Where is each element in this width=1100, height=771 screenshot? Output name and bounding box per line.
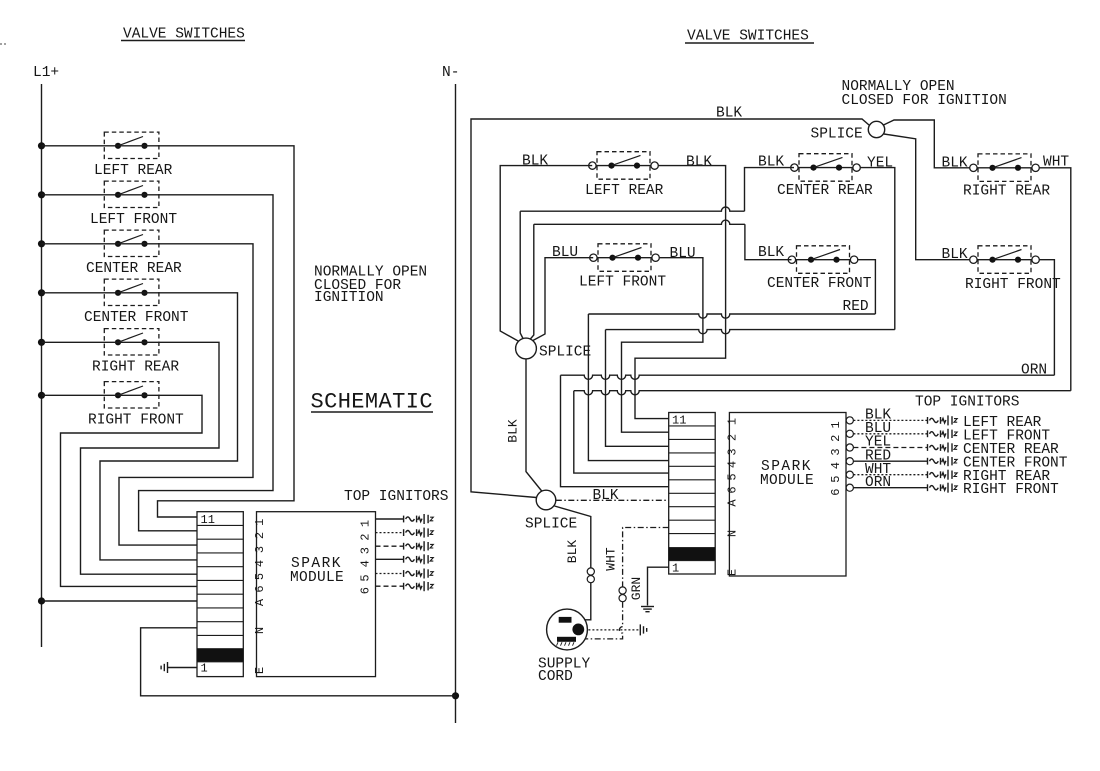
- junction dot L1 row 6: [38, 392, 45, 399]
- valve switch RIGHT FRONT (schematic): [104, 382, 159, 408]
- svg-text:4: 4: [829, 462, 843, 469]
- wire ORN RIGHT FRONT to P2 pin 6: [561, 260, 1055, 487]
- wire LEFT FRONT to connector: [42, 195, 274, 531]
- wire GRN P2 pin 1 to ground: [648, 567, 669, 605]
- wire BLK U2 pin 1 to ignitor: [853, 419, 927, 421]
- svg-text:3: 3: [726, 448, 740, 455]
- svg-text:CENTER REAR: CENTER REAR: [777, 183, 873, 199]
- svg-text:2: 2: [726, 434, 740, 441]
- svg-text:1: 1: [726, 418, 740, 425]
- svg-text:RIGHT REAR: RIGHT REAR: [92, 360, 179, 376]
- valve switch RIGHT FRONT: [970, 246, 1040, 273]
- wire LEFT REAR to connector: [42, 146, 295, 517]
- wire N- to connector pin N: [141, 628, 456, 696]
- top ignitor RIGHT FRONT: [928, 483, 958, 493]
- svg-text:RIGHT FRONT: RIGHT FRONT: [88, 413, 184, 429]
- svg-text:N: N: [253, 627, 267, 634]
- wire RED U2 pin 4 to ignitor: [853, 460, 927, 462]
- ground (left connector pin E): [161, 662, 167, 673]
- svg-text:3: 3: [829, 448, 843, 455]
- svg-text:BLK: BLK: [686, 155, 712, 171]
- junction dot L1 row 5: [38, 339, 45, 346]
- svg-text:2: 2: [829, 435, 843, 442]
- text NORMALLY OPEN (left): [314, 265, 427, 307]
- svg-text:YEL: YEL: [867, 156, 893, 172]
- wire supply plug ground to chassis: [584, 629, 639, 631]
- svg-text:RIGHT FRONT: RIGHT FRONT: [965, 277, 1061, 293]
- valve switch RIGHT REAR: [970, 154, 1040, 182]
- svg-text:3: 3: [359, 547, 373, 554]
- svg-text:3: 3: [253, 546, 267, 553]
- svg-text:4: 4: [253, 560, 267, 567]
- wire S2 to S3: [526, 359, 543, 492]
- wire U1 pin 2 to ignitor: [376, 532, 404, 534]
- U2 left pin numbers 1-6 A N E: [726, 418, 740, 576]
- svg-text:A: A: [253, 598, 267, 606]
- junction dot L1 row 2: [38, 191, 45, 198]
- valve switch CENTER FRONT (schematic): [104, 279, 159, 305]
- top ignitor LEFT FRONT: [928, 429, 958, 439]
- heading VALVE SWITCHES (right): [685, 29, 814, 45]
- valve switch CENTER REAR (schematic): [104, 230, 159, 256]
- wire RIGHT FRONT to connector: [42, 395, 203, 586]
- svg-text:TOP IGNITORS: TOP IGNITORS: [344, 489, 448, 505]
- svg-text:1: 1: [253, 519, 267, 526]
- wire BLK S3 to P2 pin A: [556, 499, 669, 501]
- svg-text:RIGHT FRONT: RIGHT FRONT: [963, 482, 1059, 498]
- wire YEL U2 pin 3 to ignitor: [853, 447, 927, 449]
- wire S2 to LEFT REAR switch: [500, 166, 592, 342]
- svg-text:5: 5: [726, 473, 740, 480]
- top ignitor 6 (left): [404, 581, 434, 591]
- svg-text:SPLICE: SPLICE: [811, 126, 863, 142]
- valve switch LEFT REAR: [589, 152, 659, 180]
- svg-text:MODULE: MODULE: [760, 473, 814, 489]
- wire S2 to CENTER REAR switch: [520, 168, 794, 340]
- wire CENTER REAR to connector: [42, 244, 254, 545]
- spark module U2: [729, 413, 846, 577]
- wire U1 pin 6 to ignitor: [376, 585, 404, 587]
- svg-text:CENTER FRONT: CENTER FRONT: [767, 276, 872, 292]
- svg-text:VALVE SWITCHES: VALVE SWITCHES: [687, 29, 809, 45]
- junction dot L1 bottom: [38, 597, 45, 604]
- U1 left pin numbers 1-6 A N E: [253, 519, 267, 674]
- svg-text:BLK: BLK: [942, 156, 968, 172]
- wire S2 to CENTER FRONT switch: [530, 220, 792, 340]
- label SPARK MODULE (U2): [760, 459, 814, 489]
- svg-text:ORN: ORN: [865, 475, 891, 491]
- svg-text:LEFT REAR: LEFT REAR: [94, 163, 173, 179]
- svg-text:1: 1: [359, 520, 373, 527]
- svg-text:A: A: [726, 499, 740, 507]
- svg-text:LEFT FRONT: LEFT FRONT: [90, 212, 177, 228]
- supply cord plug: [547, 609, 588, 650]
- wire U1 pin 3 to ignitor: [376, 545, 404, 547]
- junction dot L1 row 1: [38, 142, 45, 149]
- svg-text:RED: RED: [843, 299, 869, 315]
- svg-text:L1+: L1+: [33, 65, 59, 81]
- svg-text:4: 4: [359, 560, 373, 567]
- svg-text:5: 5: [359, 574, 373, 581]
- svg-text:5: 5: [829, 476, 843, 483]
- svg-text:SPLICE: SPLICE: [525, 517, 577, 533]
- junction dot L1 row 4: [38, 289, 45, 296]
- svg-text:N-: N-: [442, 65, 459, 81]
- valve switch RIGHT REAR (schematic): [104, 329, 159, 355]
- svg-text:IGNITION: IGNITION: [314, 290, 384, 306]
- connector P2 (right spark module): [669, 413, 716, 575]
- wire supply BLK top feed: [471, 119, 869, 498]
- top ignitor 2 (left): [404, 528, 434, 538]
- svg-text:BLK: BLK: [522, 154, 548, 170]
- svg-text:LEFT FRONT: LEFT FRONT: [579, 275, 666, 291]
- label SPARK MODULE (U1): [290, 556, 344, 586]
- wire ORN U2 pin 6 to ignitor: [853, 487, 927, 489]
- svg-text:ORN: ORN: [1021, 363, 1047, 379]
- svg-text:6: 6: [253, 585, 267, 592]
- connector P1 (left spark module): [197, 512, 243, 677]
- svg-text:GRN: GRN: [629, 577, 644, 600]
- top ignitor 4 (left): [404, 554, 434, 564]
- wire L1+ bus: [41, 84, 43, 647]
- svg-text:BLK: BLK: [758, 245, 784, 261]
- svg-text:E: E: [253, 667, 267, 674]
- svg-text:CLOSED FOR IGNITION: CLOSED FOR IGNITION: [842, 93, 1007, 109]
- top ignitor RIGHT REAR: [928, 470, 958, 480]
- svg-text:BLU: BLU: [670, 246, 696, 262]
- svg-text:LEFT REAR: LEFT REAR: [585, 183, 664, 199]
- wire S1 to RIGHT FRONT switch: [884, 134, 971, 260]
- svg-text:6: 6: [726, 486, 740, 493]
- svg-text:CENTER FRONT: CENTER FRONT: [84, 310, 189, 326]
- junction dot L1 row 3: [38, 240, 45, 247]
- wire RED CENTER FRONT to P2 pin 4: [588, 260, 875, 461]
- svg-text:N: N: [726, 530, 740, 537]
- U2 right pin terminals: [846, 417, 853, 492]
- wire S1 to RIGHT REAR switch: [884, 120, 971, 168]
- svg-text:11: 11: [201, 513, 215, 527]
- splice S1: [868, 121, 884, 137]
- svg-text:1: 1: [829, 421, 843, 428]
- wire WHT U2 pin 5 to ignitor: [853, 474, 927, 476]
- top ignitor 3 (left): [404, 541, 434, 551]
- spark module U1 (schematic): [257, 512, 376, 677]
- svg-text:2: 2: [253, 532, 267, 539]
- wire S2 to LEFT FRONT switch: [532, 258, 593, 341]
- wire RIGHT REAR to connector: [42, 342, 220, 574]
- chassis ground (supply): [640, 624, 646, 635]
- svg-text:CORD: CORD: [538, 669, 573, 685]
- wire CENTER FRONT to connector: [42, 293, 238, 560]
- svg-text:1: 1: [201, 662, 208, 676]
- svg-text:11: 11: [672, 414, 686, 428]
- splice S2: [516, 338, 537, 359]
- corner registration mark: [0, 43, 7, 45]
- svg-text:4: 4: [726, 461, 740, 468]
- svg-text:BLK: BLK: [565, 540, 580, 564]
- svg-text:E: E: [726, 569, 740, 576]
- wire U1 pin 4 to ignitor: [376, 558, 404, 560]
- svg-text:6: 6: [829, 489, 843, 496]
- ground (GRN): [641, 607, 654, 612]
- svg-text:5: 5: [253, 573, 267, 580]
- valve switch CENTER FRONT: [788, 246, 858, 273]
- svg-text:1: 1: [672, 562, 679, 576]
- wire WHT supply to P2 pin N: [576, 528, 669, 639]
- svg-text:BLK: BLK: [942, 247, 968, 263]
- wire ground to connector pin E: [168, 667, 198, 669]
- top ignitor 5 (left): [404, 569, 434, 579]
- svg-text:CENTER REAR: CENTER REAR: [86, 261, 182, 277]
- heading VALVE SWITCHES (left): [121, 27, 245, 43]
- wire BLK LEFT REAR to P2 pin 1: [635, 166, 726, 419]
- wire BLU LEFT FRONT to P2 pin 2: [622, 258, 703, 433]
- wire U1 pin 1 to ignitor: [376, 518, 404, 520]
- svg-text:BLU: BLU: [552, 245, 578, 261]
- wire N- bus: [455, 84, 457, 723]
- wire BLK S3 to supply cord: [555, 506, 595, 620]
- U2 right pin numbers 1-6: [829, 421, 843, 496]
- top ignitor CENTER REAR: [928, 443, 958, 453]
- splice S3: [536, 490, 556, 510]
- svg-text:TOP IGNITORS: TOP IGNITORS: [915, 395, 1019, 411]
- valve switch LEFT REAR (schematic): [104, 132, 159, 158]
- svg-text:SCHEMATIC: SCHEMATIC: [311, 390, 433, 415]
- svg-text:WHT: WHT: [604, 547, 619, 571]
- wire U1 pin 5 to ignitor: [376, 573, 404, 575]
- valve switch LEFT FRONT (schematic): [104, 181, 159, 207]
- wire BLU U2 pin 2 to ignitor: [853, 433, 927, 435]
- text NORMALLY OPEN (right): [842, 79, 1007, 109]
- top ignitor 1 (left): [404, 514, 434, 524]
- svg-text:BLK: BLK: [506, 419, 521, 443]
- junction dot N- bottom: [452, 692, 459, 699]
- wire YEL CENTER REAR to P2 pin 3: [606, 168, 895, 447]
- top ignitor CENTER FRONT: [928, 456, 958, 466]
- svg-text:6: 6: [359, 587, 373, 594]
- svg-text:RIGHT REAR: RIGHT REAR: [963, 184, 1050, 200]
- svg-text:BLK: BLK: [593, 488, 619, 504]
- valve switch CENTER REAR: [791, 154, 861, 182]
- label SUPPLY CORD: [538, 656, 591, 685]
- wire WHT RIGHT REAR to P2 pin 5: [574, 168, 1071, 473]
- svg-text:SPLICE: SPLICE: [539, 344, 591, 360]
- wire L1 to connector pin A: [42, 600, 198, 602]
- valve switch LEFT FRONT: [590, 244, 660, 271]
- svg-text:MODULE: MODULE: [290, 570, 344, 586]
- U1 right pin numbers 1-6: [359, 520, 373, 594]
- top ignitor LEFT REAR: [928, 415, 958, 425]
- svg-text:2: 2: [359, 533, 373, 540]
- title SCHEMATIC: [311, 390, 434, 415]
